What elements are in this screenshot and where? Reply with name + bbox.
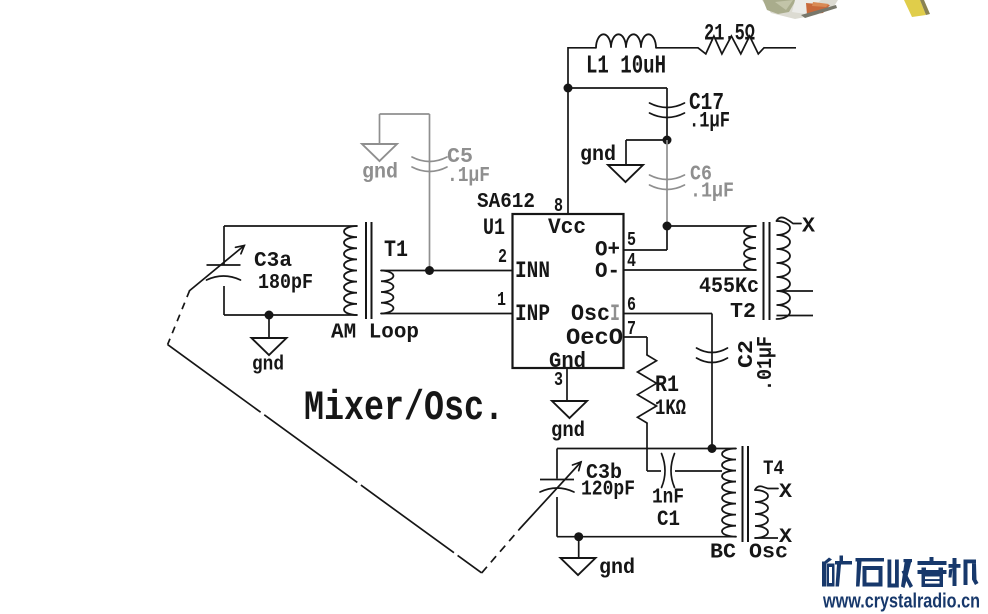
transformer T1 core bbox=[366, 222, 372, 319]
capacitor C17 bbox=[650, 103, 685, 118]
hanzi yin bbox=[918, 557, 947, 587]
capacitor C2 bbox=[697, 348, 728, 363]
label C5 bbox=[447, 146, 473, 169]
label C17 bbox=[689, 90, 724, 117]
transformer T4 core bbox=[743, 446, 749, 542]
label gnd C5 bbox=[362, 162, 398, 185]
svg-text:T4: T4 bbox=[763, 458, 784, 481]
IC U1 SA612 body bbox=[513, 214, 624, 368]
ground symbol C3b bbox=[561, 558, 596, 575]
wire pin6 OscI bbox=[624, 314, 713, 450]
ground symbol top bbox=[608, 165, 643, 182]
junction node C5/INN bbox=[425, 266, 434, 275]
transformer T4 primary bbox=[722, 449, 736, 537]
svg-text:gnd: gnd bbox=[580, 144, 616, 167]
wire top rail right segment bbox=[764, 47, 796, 49]
junction node C17/gnd/C6 bbox=[663, 136, 672, 145]
label gnd pin3 bbox=[551, 420, 585, 443]
dashed gang line from C3a bbox=[168, 291, 190, 345]
label OscI bbox=[571, 301, 620, 327]
hanzi shi bbox=[856, 558, 885, 587]
transformer T1 secondary bbox=[381, 271, 393, 314]
label C5 value .1uF bbox=[447, 165, 490, 188]
label R1 bbox=[655, 372, 679, 398]
dashed gang line long bbox=[168, 345, 482, 573]
svg-text:L1 10uH: L1 10uH bbox=[586, 51, 666, 81]
label O- bbox=[595, 258, 620, 284]
svg-text:O-: O- bbox=[595, 258, 620, 284]
label Gnd bbox=[549, 348, 586, 374]
wire pin4 to T2 bbox=[624, 269, 757, 271]
wire T2 sec tap bbox=[777, 290, 814, 292]
svg-text:www.crystalradio.cn: www.crystalradio.cn bbox=[822, 591, 980, 613]
svg-text:120pF: 120pF bbox=[581, 479, 635, 502]
dashed gang line to C3b bbox=[482, 529, 520, 573]
hanzi ji bbox=[949, 558, 979, 586]
svg-text:INN: INN bbox=[515, 258, 550, 284]
junction node C6/pin5/T2 bbox=[663, 222, 672, 231]
pin 4 label bbox=[627, 250, 636, 272]
pin 2 label bbox=[498, 246, 507, 268]
ground symbol C3a bbox=[252, 338, 287, 355]
wire T4 sec bottom to X bbox=[755, 537, 778, 539]
label T4 bbox=[763, 458, 784, 481]
label .01uF rotated bbox=[755, 336, 778, 391]
label INN bbox=[515, 258, 550, 284]
junction node Vcc/C17 branch bbox=[564, 84, 573, 93]
wire C17 vertical bbox=[666, 88, 668, 140]
pin 1 label bbox=[497, 289, 506, 311]
svg-text:SA612: SA612 bbox=[477, 191, 535, 214]
wire gnd branch bbox=[626, 140, 667, 165]
capacitor C5 gray bbox=[412, 157, 447, 172]
label X T2 bbox=[802, 216, 815, 239]
transformer T4 secondary bbox=[755, 490, 768, 538]
wire between L1 and R bbox=[656, 47, 698, 49]
svg-text:Vcc: Vcc bbox=[548, 214, 586, 240]
label C1 bbox=[657, 507, 680, 532]
svg-text:.1µF: .1µF bbox=[689, 109, 730, 134]
svg-text:gnd: gnd bbox=[551, 420, 585, 443]
transformer T2 core bbox=[764, 222, 770, 320]
label 1K ohm bbox=[655, 396, 686, 421]
label OecO bbox=[566, 325, 623, 351]
junction node loop2 gnd bbox=[574, 532, 583, 541]
svg-text:gnd: gnd bbox=[362, 162, 398, 185]
transformer T1 primary bbox=[344, 226, 357, 315]
junction node loop gnd bbox=[265, 311, 274, 320]
label C17 value .1uF bbox=[689, 109, 730, 134]
label gnd top bbox=[580, 144, 616, 167]
svg-text:I: I bbox=[610, 301, 620, 327]
label L1 10uH bbox=[586, 51, 666, 81]
watermark url bbox=[822, 591, 980, 613]
label INP bbox=[515, 301, 550, 327]
svg-text:BC Osc: BC Osc bbox=[710, 542, 788, 565]
pin 3 label bbox=[554, 369, 563, 391]
svg-text:5: 5 bbox=[627, 229, 636, 251]
arrow through C3a bbox=[190, 246, 245, 291]
wire R1 to C1 bbox=[647, 423, 661, 471]
wire C6 vertical gray bbox=[666, 140, 668, 226]
junction node C2/loop bbox=[708, 444, 717, 453]
photo fragment bbox=[762, 0, 930, 19]
label C3b bbox=[586, 462, 622, 485]
label C6 value .1uF bbox=[690, 181, 734, 204]
wire pin 3 stub bbox=[566, 368, 568, 401]
hanzi shou bbox=[888, 559, 914, 588]
label AM Loop bbox=[331, 322, 419, 345]
wire C5 vertical gray bbox=[429, 114, 431, 271]
label C2 rotated bbox=[736, 340, 759, 368]
svg-text:4: 4 bbox=[627, 250, 636, 272]
wire C1 to T4 tap bbox=[675, 470, 722, 472]
ground symbol C5 bbox=[362, 144, 397, 161]
svg-text:U1: U1 bbox=[483, 215, 505, 241]
inductor L1 bbox=[596, 34, 656, 48]
wire top rail left segment bbox=[568, 47, 596, 49]
variable capacitor C3b bbox=[540, 480, 574, 493]
label X T4 bottom bbox=[779, 526, 793, 549]
label 1nF bbox=[652, 486, 684, 510]
svg-text:21.5Ω: 21.5Ω bbox=[704, 21, 755, 47]
svg-text:455Kc: 455Kc bbox=[699, 273, 759, 299]
svg-text:180pF: 180pF bbox=[258, 272, 313, 295]
resistor 21.5 ohm bbox=[698, 36, 764, 54]
label Vcc bbox=[548, 214, 586, 240]
svg-text:gnd: gnd bbox=[599, 557, 635, 580]
svg-text:T1: T1 bbox=[384, 237, 408, 263]
svg-text:R1: R1 bbox=[655, 372, 679, 398]
svg-text:.1µF: .1µF bbox=[690, 181, 734, 204]
hanzi kuang bbox=[822, 556, 852, 587]
svg-text:.1µF: .1µF bbox=[447, 165, 490, 188]
svg-text:gnd: gnd bbox=[252, 354, 284, 377]
svg-text:1KΩ: 1KΩ bbox=[655, 396, 686, 421]
wire pin5 stub bbox=[624, 226, 668, 250]
wire T4 sec top to X bbox=[755, 486, 778, 490]
ground symbol U1 pin3 bbox=[552, 401, 587, 418]
svg-text:1: 1 bbox=[497, 289, 506, 311]
capacitor C6 gray bbox=[650, 175, 685, 190]
wire INP bbox=[381, 313, 513, 315]
wire T2 sec bottom bbox=[777, 315, 814, 317]
label T2 bbox=[730, 301, 756, 324]
label U1 bbox=[483, 215, 505, 241]
svg-text:T2: T2 bbox=[730, 301, 756, 324]
svg-text:.01µF: .01µF bbox=[755, 336, 778, 391]
wire loop left lower b bbox=[556, 497, 558, 537]
wire loop left upper b bbox=[556, 449, 558, 479]
svg-text:C3a: C3a bbox=[254, 250, 292, 273]
wire gnd stub C3a bbox=[268, 315, 270, 338]
label X T4 top bbox=[779, 481, 793, 504]
pin 6 label bbox=[627, 294, 636, 316]
label 120pF bbox=[581, 479, 635, 502]
wire to C17 bbox=[568, 87, 667, 89]
label O+ bbox=[595, 237, 620, 263]
transformer T2 primary bbox=[744, 226, 756, 270]
svg-text:1nF: 1nF bbox=[652, 486, 684, 510]
label T1 bbox=[384, 237, 408, 263]
label BC Osc bbox=[710, 542, 788, 565]
capacitor C1 bbox=[662, 454, 675, 488]
pin 8 label bbox=[554, 195, 563, 217]
label C6 bbox=[690, 164, 712, 187]
wire T2 sec top to X bbox=[777, 217, 802, 223]
label gnd C3a bbox=[252, 354, 284, 377]
svg-text:2: 2 bbox=[498, 246, 507, 268]
svg-text:3: 3 bbox=[554, 369, 563, 391]
label 180pF bbox=[258, 272, 313, 295]
svg-text:X: X bbox=[779, 481, 793, 504]
svg-text:X: X bbox=[802, 216, 815, 239]
arrow through C3b bbox=[520, 462, 581, 529]
wire C5 top hook gray bbox=[380, 114, 430, 144]
label C3a bbox=[254, 250, 292, 273]
wire osc loop bottom bbox=[557, 536, 736, 538]
wire loop top bbox=[224, 225, 344, 227]
wire loop bottom bbox=[224, 314, 344, 316]
wire osc loop top bbox=[557, 448, 736, 450]
pin 5 label bbox=[627, 229, 636, 251]
label SA612 bbox=[477, 191, 535, 214]
label gnd C3b bbox=[599, 557, 635, 580]
wire loop left lower bbox=[223, 286, 225, 315]
label Mixer/Osc. bbox=[304, 384, 504, 432]
resistor R1 bbox=[638, 355, 657, 423]
transformer T2 secondary bbox=[777, 221, 791, 319]
label 21.5 ohm bbox=[704, 21, 755, 47]
svg-text:Mixer/Osc.: Mixer/Osc. bbox=[304, 384, 504, 432]
svg-text:INP: INP bbox=[515, 301, 550, 327]
svg-text:Osc: Osc bbox=[571, 301, 610, 327]
wire Vcc vertical from top rail to U1 pin 8 bbox=[567, 47, 569, 214]
wire gnd stub C3b bbox=[578, 537, 580, 558]
svg-text:AM Loop: AM Loop bbox=[331, 322, 419, 345]
pin 7 label bbox=[627, 318, 636, 340]
wire T2 primary top bbox=[667, 225, 756, 227]
wire pin7 OecO bbox=[624, 337, 648, 355]
svg-text:C1: C1 bbox=[657, 507, 680, 532]
label 455Kc bbox=[699, 273, 759, 299]
wire loop left upper bbox=[223, 226, 225, 265]
wire INN bbox=[381, 270, 513, 272]
variable capacitor C3a bbox=[207, 265, 241, 280]
